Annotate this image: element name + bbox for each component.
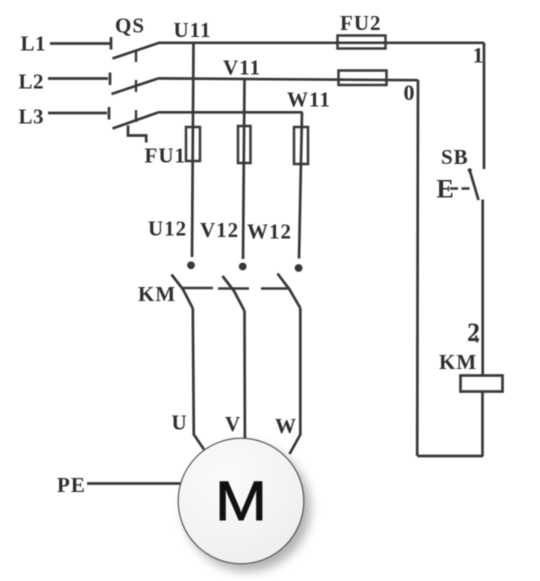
- wire PE to motor: [87, 482, 182, 485]
- svg-text:L3: L3: [19, 105, 45, 129]
- wire V11 bus (second row): [158, 78, 418, 80]
- svg-text:M: M: [215, 469, 267, 532]
- QS fixed contact tick pole 2: [109, 73, 112, 86]
- svg-text:U11: U11: [174, 18, 212, 42]
- wire L2: [48, 77, 108, 80]
- wire motor phase V: [243, 311, 246, 439]
- wire W11 bus (third row): [158, 111, 303, 114]
- svg-text:U: U: [172, 411, 188, 435]
- svg-text:0: 0: [404, 80, 415, 105]
- fuse FU1 body pole 2: [238, 126, 251, 163]
- svg-text:SB: SB: [441, 145, 469, 169]
- svg-text:QS: QS: [115, 14, 145, 38]
- QS fixed contact tick pole 1: [110, 37, 113, 50]
- fuse FU2 body b: [339, 71, 387, 86]
- svg-text:L1: L1: [21, 32, 47, 56]
- wire control bottom: [418, 455, 484, 458]
- contactor KM blade pole 1: [172, 275, 193, 309]
- switch QS blade pole 2: [112, 79, 159, 95]
- coil KM body: [461, 376, 503, 392]
- contactor KM linkage segment 1: [183, 287, 214, 289]
- wire motor phase U: [193, 308, 204, 450]
- node 2 label: [467, 318, 480, 347]
- contactor KM linkage segment 3: [261, 287, 290, 289]
- wire W11 drop to fuse and contact: [299, 112, 302, 258]
- svg-text:W: W: [275, 414, 297, 438]
- svg-text:V: V: [225, 412, 241, 436]
- svg-text:KM: KM: [138, 282, 176, 306]
- contactor KM blade pole 2: [223, 276, 245, 311]
- motor M body: [178, 438, 304, 564]
- wire L1: [50, 42, 110, 45]
- fuse FU1 body pole 1: [186, 127, 200, 161]
- wire coil to bottom: [481, 392, 484, 457]
- pushbutton SB actuator dashed link: [450, 187, 470, 189]
- svg-text:U12: U12: [148, 217, 187, 241]
- contactor KM linkage segment 2: [218, 287, 249, 289]
- wire control right drop (node 1 to SB): [483, 43, 486, 169]
- wire U11 bus (top row to FU2 and right corner): [158, 41, 484, 44]
- switch QS blade pole 1: [113, 43, 161, 59]
- svg-text:2: 2: [467, 318, 480, 347]
- svg-text:PE: PE: [57, 473, 86, 497]
- switch QS linkage dashed line: [135, 50, 137, 128]
- svg-text:V11: V11: [223, 56, 261, 80]
- fuse FU1 body pole 3: [294, 127, 308, 164]
- wire control left riser (node 0): [416, 80, 419, 456]
- pushbutton SB blade: [468, 168, 479, 200]
- svg-text:FU1: FU1: [145, 144, 187, 168]
- contactor KM fixed dot pole 2: [239, 263, 247, 271]
- svg-text:V12: V12: [200, 218, 239, 242]
- wire L3: [48, 112, 107, 115]
- svg-text:1: 1: [473, 43, 484, 68]
- wire SB to coil: [481, 200, 484, 376]
- wire motor phase W: [290, 308, 301, 454]
- svg-text:KM: KM: [439, 350, 477, 374]
- svg-text:W11: W11: [287, 88, 331, 112]
- fuse FU2 body a: [338, 36, 386, 49]
- contactor KM blade pole 3: [278, 274, 301, 309]
- svg-text:FU2: FU2: [340, 11, 382, 35]
- switch QS handle hook: [128, 126, 146, 143]
- QS fixed contact tick pole 3: [108, 107, 111, 120]
- switch QS blade pole 3: [113, 113, 159, 129]
- wire V11 drop to fuse and contact: [243, 79, 245, 260]
- wire U11 drop to fuse and contact: [192, 43, 194, 257]
- svg-text:L2: L2: [19, 70, 45, 94]
- contactor KM fixed dot pole 3: [295, 264, 303, 272]
- svg-text:W12: W12: [247, 220, 292, 244]
- contactor KM fixed dot pole 1: [187, 261, 195, 269]
